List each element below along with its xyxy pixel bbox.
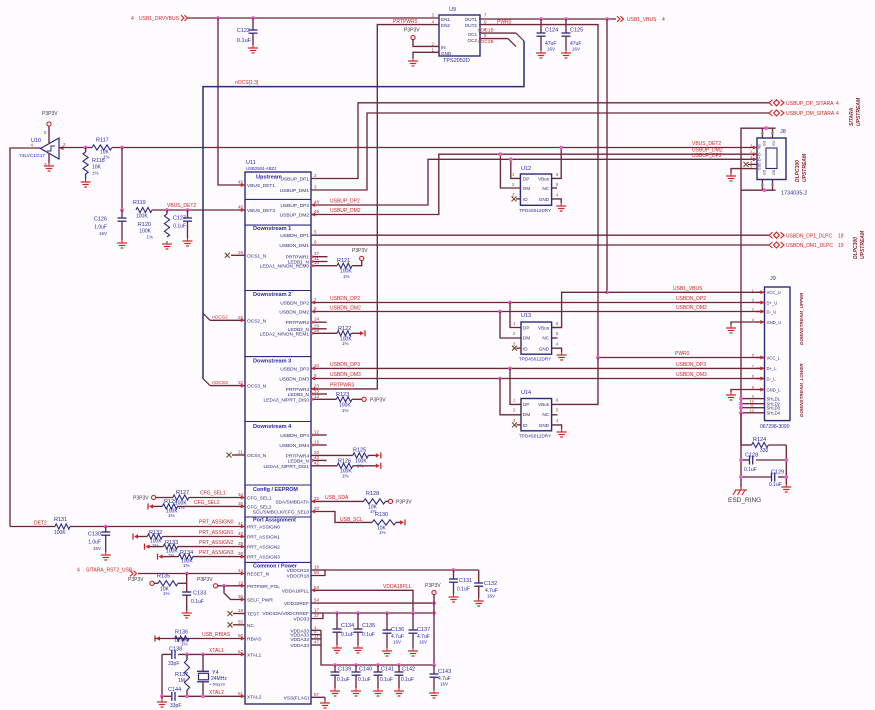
svg-text:1%: 1%	[163, 591, 170, 596]
power flag PRT_ASSIGN2	[144, 544, 146, 550]
wire PRT_ASSIGN2	[178, 546, 245, 548]
capacitor C129	[741, 476, 772, 478]
svg-text:0.1uF: 0.1uF	[401, 677, 414, 683]
svg-text:1%: 1%	[343, 274, 350, 279]
svg-text:VBUS_DET1: VBUS_DET1	[247, 183, 275, 189]
junction VDD33REF	[432, 601, 436, 605]
svg-text:USBDN_DP1_DLPC: USBDN_DP1_DLPC	[786, 233, 833, 239]
svg-text:VDDA18PLL: VDDA18PLL	[383, 584, 412, 590]
svg-text:PRTPWR2: PRTPWR2	[286, 320, 310, 326]
svg-text:EN2: EN2	[441, 23, 450, 28]
svg-text:P3P3V: P3P3V	[425, 583, 441, 589]
stub U14 NC	[552, 414, 558, 416]
svg-text:USB1_VBUS: USB1_VBUS	[627, 17, 657, 23]
capacitor C144	[171, 692, 173, 701]
capacitor C133	[186, 583, 188, 592]
bottom cap rail	[335, 664, 434, 666]
svg-text:13: 13	[314, 440, 320, 445]
svg-text:USBDN_DM2: USBDN_DM2	[330, 306, 361, 312]
junction U12 VBus	[559, 146, 563, 150]
svg-text:TPS2052D: TPS2052D	[443, 58, 470, 64]
wire USB_RBIAS	[155, 638, 245, 640]
svg-text:R132: R132	[149, 530, 162, 536]
junction VBUS_DET2 divider	[120, 146, 124, 150]
ground R120	[166, 241, 168, 244]
ground C125	[565, 50, 567, 53]
svg-text:57: 57	[314, 692, 320, 697]
svg-text:LEDA1_N/NON_REM0: LEDA1_N/NON_REM0	[260, 264, 310, 270]
svg-text:USB_SDA: USB_SDA	[325, 495, 349, 501]
svg-text:R135: R135	[157, 574, 170, 580]
svg-text:VCC_U: VCC_U	[767, 290, 781, 295]
svg-text:nOCS[1:3]: nOCS[1:3]	[235, 80, 259, 86]
svg-text:J8: J8	[780, 129, 786, 135]
power P3P3V port3	[362, 397, 366, 401]
junction USB1_VBUS vertical	[605, 17, 609, 21]
capacitor C142	[397, 663, 401, 667]
svg-text:VCC_L: VCC_L	[767, 355, 781, 360]
capacitor C135	[357, 613, 359, 629]
wire LEDA3_N to R123	[311, 398, 336, 400]
svg-text:XTAL2: XTAL2	[247, 694, 262, 700]
net USBDN_DM3 to J9	[311, 378, 765, 380]
off-page flag USBDN_DM1_DLPC	[769, 242, 773, 248]
svg-text:12: 12	[750, 408, 755, 413]
svg-text:1M: 1M	[178, 678, 185, 684]
net VDDCR18 wires	[311, 569, 325, 571]
capacitor C124	[540, 19, 542, 33]
connector J9	[765, 287, 791, 421]
svg-text:37: 37	[314, 613, 320, 618]
svg-text:50: 50	[314, 570, 320, 575]
capacitor C122	[252, 18, 254, 30]
svg-text:IN: IN	[441, 45, 446, 50]
junction PWR0 at VCC_L	[596, 356, 600, 360]
net USBUP_DP1 to off-page	[311, 103, 769, 179]
svg-text:VDDCR18: VDDCR18	[287, 574, 310, 580]
svg-text:R131: R131	[54, 517, 67, 523]
svg-text:1%: 1%	[342, 408, 349, 413]
svg-text:G3: G3	[763, 141, 767, 146]
wire U10 input from DET2	[10, 148, 41, 527]
resistor R124	[741, 444, 752, 446]
pin arrows U11 right	[311, 203, 315, 207]
svg-text:VSS(FLAG): VSS(FLAG)	[284, 695, 310, 701]
ESD ring rails	[740, 413, 742, 487]
ground J8	[730, 173, 732, 176]
svg-text:GND: GND	[539, 197, 550, 202]
capacitor C136	[386, 613, 388, 630]
capacitor C139	[333, 663, 337, 667]
ground U13	[561, 352, 563, 355]
power switch U9	[439, 15, 480, 56]
wire U13 DM	[500, 312, 521, 339]
svg-text:52: 52	[238, 649, 244, 654]
svg-text:C137: C137	[417, 627, 430, 633]
no-connect X OCS4	[232, 454, 245, 456]
net USBDN_DP2 to J9	[311, 302, 765, 304]
svg-text:R125: R125	[353, 448, 366, 454]
svg-text:54: 54	[314, 598, 320, 603]
junction R137 top	[185, 653, 189, 657]
junction at 253,18	[251, 16, 255, 20]
svg-text:VDD33: VDD33	[294, 617, 310, 623]
svg-text:ID: ID	[523, 423, 528, 428]
resistor R126	[337, 463, 353, 468]
svg-text:16V: 16V	[419, 640, 427, 645]
svg-text:C134: C134	[341, 623, 354, 629]
svg-text:XTAL1: XTAL1	[209, 648, 224, 654]
svg-text:USBUP_DM1: USBUP_DM1	[280, 188, 310, 194]
svg-text:C144: C144	[168, 687, 181, 693]
svg-text:USBDN_DP2: USBDN_DP2	[676, 296, 706, 302]
bus entry nOC2B	[508, 39, 516, 47]
stub LED1_N	[311, 261, 328, 263]
svg-text:USBDN_DM2: USBDN_DM2	[279, 310, 309, 316]
net USB_SDA wire	[311, 500, 364, 502]
wire U13 DP	[510, 303, 521, 328]
svg-text:NC: NC	[542, 336, 549, 341]
svg-text:26: 26	[238, 250, 244, 255]
resistor R130	[372, 520, 396, 525]
no-connect X U12 ID	[516, 198, 520, 200]
power flag RBIAS	[154, 636, 156, 642]
svg-text:16V: 16V	[487, 594, 495, 599]
svg-text:18: 18	[238, 608, 244, 613]
svg-text:C143: C143	[438, 669, 451, 675]
svg-text:PRT_ASSIGN3: PRT_ASSIGN3	[247, 555, 280, 561]
resistor R135	[158, 581, 178, 586]
stub U12 NC	[552, 187, 557, 189]
svg-text:DM: DM	[523, 336, 530, 341]
net USBDN_DP1 to off-page	[311, 234, 769, 236]
wire to R119 row	[121, 148, 123, 211]
svg-text:G1: G1	[758, 165, 762, 170]
capacitor C130	[105, 527, 107, 533]
svg-text:1%: 1%	[183, 563, 190, 568]
svg-text:C131: C131	[459, 578, 472, 584]
svg-text:35: 35	[238, 501, 244, 506]
svg-text:TPD4S012DRY: TPD4S012DRY	[519, 434, 551, 439]
svg-text:41: 41	[238, 521, 244, 526]
svg-text:PRT_ASSIGN0: PRT_ASSIGN0	[247, 525, 280, 531]
svg-text:+-50ppm: +-50ppm	[209, 682, 226, 687]
svg-text:25: 25	[238, 315, 244, 320]
capacitor C141	[376, 663, 380, 667]
svg-text:USBUP_DP2: USBUP_DP2	[692, 153, 722, 159]
svg-text:Downstream 1: Downstream 1	[253, 226, 291, 232]
svg-text:PRT_ASSIGN2: PRT_ASSIGN2	[199, 540, 234, 546]
svg-text:USBUP_DP_SITARA: USBUP_DP_SITARA	[786, 101, 834, 107]
ESD protection U12	[520, 174, 551, 205]
wire PRT_ASSIGN1	[162, 536, 245, 538]
svg-text:22: 22	[238, 380, 244, 385]
wire U9 GND to ground	[413, 52, 439, 58]
wire U12 VBus	[552, 148, 562, 179]
junction U14 DM	[498, 377, 502, 381]
svg-text:VDDA33: VDDA33	[290, 643, 309, 649]
capacitor C131	[453, 570, 455, 579]
svg-text:1%: 1%	[342, 474, 349, 479]
junction ESD left rail	[739, 458, 743, 462]
svg-text:C127: C127	[173, 216, 186, 222]
USB hub U11	[245, 172, 311, 704]
svg-text:36: 36	[238, 594, 244, 599]
chassis ground ESD	[740, 487, 742, 490]
wire U10 output	[59, 147, 92, 149]
svg-text:XTAL1: XTAL1	[247, 652, 262, 658]
ground C130	[105, 552, 107, 555]
capacitor C128	[741, 459, 750, 461]
svg-text:USB_RBIAS: USB_RBIAS	[202, 632, 231, 638]
wire VBUS_DET2 to U11 pin46	[152, 209, 245, 211]
svg-text:R134: R134	[180, 550, 193, 556]
svg-text:USBUP_DP2: USBUP_DP2	[330, 199, 360, 205]
svg-text:OCS1_N: OCS1_N	[247, 253, 267, 259]
off-page flag USBUP_DP_SITARA	[769, 100, 773, 106]
bus nOCS vertical right	[203, 41, 524, 379]
wire R135 to node	[178, 582, 187, 584]
svg-text:DOWNSTREAM_LOWER: DOWNSTREAM_LOWER	[799, 363, 804, 417]
wire R123 to P3P3V	[352, 398, 362, 400]
capacitor C126	[121, 210, 123, 218]
svg-text:NC: NC	[542, 186, 549, 191]
no-connect X U14 ID	[517, 424, 522, 426]
svg-text:C126: C126	[94, 217, 107, 223]
wire P3P3V to U9 IN	[413, 40, 439, 47]
svg-text:SITARA: SITARA	[849, 107, 855, 126]
svg-text:U12: U12	[521, 166, 531, 172]
resistor R122	[337, 331, 351, 336]
ground U9	[412, 58, 414, 61]
capacitor C125	[565, 19, 567, 33]
net nOC2B wire	[479, 38, 508, 40]
svg-text:UPSTREAM: UPSTREAM	[802, 153, 808, 182]
svg-text:OUT2: OUT2	[465, 23, 478, 28]
svg-text:EN1: EN1	[441, 17, 450, 22]
svg-text:USB1_DRVVBUS: USB1_DRVVBUS	[139, 16, 180, 22]
bus entry OCS3	[203, 379, 210, 386]
svg-text:GND: GND	[441, 51, 452, 56]
svg-text:OCS3_N: OCS3_N	[247, 384, 267, 390]
svg-text:VBUS_DET3: VBUS_DET3	[247, 208, 275, 214]
net VDDA33 pins join	[311, 629, 321, 631]
ground C134	[336, 645, 338, 648]
svg-text:PRTPWR3: PRTPWR3	[286, 387, 310, 393]
svg-text:0.1uF: 0.1uF	[362, 632, 375, 638]
wire U14 DM	[500, 379, 521, 415]
junction C135	[356, 611, 360, 615]
svg-text:nOCS2: nOCS2	[212, 315, 228, 321]
svg-text:USBUP_DM2: USBUP_DM2	[330, 208, 361, 214]
wire PWR0 to U14 VBus	[552, 358, 598, 405]
svg-text:4: 4	[77, 568, 80, 574]
capacitor C134	[336, 613, 338, 629]
svg-text:USBDN_DM3: USBDN_DM3	[330, 372, 361, 378]
junction Y4 top	[201, 653, 205, 657]
wire XTAL2 row	[162, 695, 171, 697]
svg-text:100K: 100K	[54, 530, 66, 536]
svg-text:OC2: OC2	[468, 38, 478, 43]
svg-text:USBDN_DP2: USBDN_DP2	[330, 296, 360, 302]
stub USBDN_DP4	[311, 434, 327, 436]
svg-text:R124: R124	[753, 437, 766, 443]
svg-text:D+_U: D+_U	[767, 300, 778, 305]
svg-text:C140: C140	[359, 667, 372, 673]
off-page flag USBDN_DP1_DLPC	[769, 232, 773, 238]
svg-text:USBDN_DP3: USBDN_DP3	[676, 362, 706, 368]
ground C133	[186, 610, 188, 613]
net USBUP_DM1 to off-page	[311, 113, 769, 190]
svg-text:C139: C139	[338, 667, 351, 673]
ground C127	[187, 238, 189, 241]
junction USB1_VBUS at VCC_U	[605, 290, 609, 294]
resistor R120	[166, 210, 168, 214]
resistor R118	[85, 148, 87, 153]
svg-text:G6: G6	[772, 170, 776, 175]
svg-text:USB_SCL: USB_SCL	[340, 517, 363, 523]
svg-text:40: 40	[238, 531, 244, 536]
svg-text:Downstream 3: Downstream 3	[253, 359, 291, 365]
svg-text:C129: C129	[771, 470, 784, 476]
bus entry nOC1B	[516, 33, 524, 41]
svg-text:330: 330	[760, 448, 769, 454]
J9 pins	[756, 291, 765, 293]
svg-text:R120: R120	[138, 222, 151, 228]
svg-text:51: 51	[238, 691, 244, 696]
svg-text:Upstream: Upstream	[256, 175, 282, 181]
svg-text:P3P3V: P3P3V	[404, 28, 420, 34]
svg-text:Downstream 4: Downstream 4	[253, 424, 292, 430]
svg-text:1%: 1%	[146, 235, 153, 240]
net USBDN_DM1 to off-page	[311, 244, 769, 246]
bus entry OCS2	[203, 313, 210, 320]
svg-text:R136: R136	[175, 630, 188, 636]
svg-text:NC: NC	[247, 623, 254, 629]
svg-text:DLPC300: DLPC300	[795, 160, 801, 182]
svg-text:USBDN_DP3: USBDN_DP3	[330, 362, 360, 368]
svg-text:21: 21	[238, 450, 244, 455]
ground C143	[433, 690, 435, 693]
resistor R133	[163, 544, 177, 549]
ground U10	[48, 154, 50, 163]
junction C130	[104, 525, 108, 529]
svg-text:UPSTREAM: UPSTREAM	[856, 97, 862, 126]
svg-text:RESET_N: RESET_N	[247, 572, 270, 578]
ground C132	[478, 598, 480, 601]
svg-text:LEDB4_N: LEDB4_N	[288, 458, 310, 464]
svg-text:CFG_SEL2: CFG_SEL2	[194, 500, 220, 506]
svg-text:USBDN_DP3: USBDN_DP3	[280, 366, 309, 372]
svg-text:R126: R126	[338, 459, 351, 465]
svg-text:0.1uF: 0.1uF	[341, 632, 354, 638]
resistor R125	[353, 453, 369, 458]
svg-text:0.1uF: 0.1uF	[744, 467, 757, 473]
svg-text:nOC1B: nOC1B	[478, 28, 494, 34]
no-connect X TEST	[233, 613, 245, 615]
svg-text:R122: R122	[338, 326, 351, 332]
svg-text:DOWNSTREAM_UPPER: DOWNSTREAM_UPPER	[799, 292, 804, 345]
buffer U10 74LVC1G17	[41, 138, 60, 159]
svg-text:1%: 1%	[342, 341, 349, 346]
stub LEDB2_N	[311, 328, 327, 330]
svg-text:VBus: VBus	[538, 402, 550, 407]
svg-text:DP: DP	[523, 402, 529, 407]
junction C131	[452, 568, 456, 572]
wire U14 GND	[552, 425, 562, 429]
svg-text:VBUS_DET2: VBUS_DET2	[692, 141, 721, 147]
J8 shield bottom loop	[761, 180, 763, 191]
J8 pin stubs	[748, 147, 757, 149]
svg-text:SHLD4: SHLD4	[767, 411, 781, 416]
resistor R131	[10, 526, 55, 528]
svg-text:USB2504-ABZJ: USB2504-ABZJ	[246, 166, 276, 171]
svg-text:C128: C128	[745, 453, 758, 459]
svg-text:G4: G4	[772, 141, 776, 146]
junction U12 DP	[509, 157, 513, 161]
svg-text:USBDN_DP1: USBDN_DP1	[280, 233, 309, 239]
svg-text:VDD33REF: VDD33REF	[284, 601, 309, 607]
svg-text:USBUP_DM2: USBUP_DM2	[280, 213, 310, 219]
svg-text:R127: R127	[176, 490, 189, 496]
wire VBUS_DET2 long row	[112, 147, 748, 149]
connector J8	[757, 138, 786, 180]
net nOC1B wire	[479, 32, 516, 34]
svg-text:PRT_ASSIGN1: PRT_ASSIGN1	[199, 530, 234, 536]
junction U14 DP	[508, 367, 512, 371]
svg-text:P3P3V: P3P3V	[197, 577, 213, 583]
svg-text:USBDN_DM4: USBDN_DM4	[279, 443, 309, 449]
svg-text:PWR0: PWR0	[675, 351, 690, 357]
power flag PRT_ASSIGN3	[157, 554, 159, 560]
ground C124	[540, 50, 542, 53]
svg-text:DM: DM	[523, 186, 530, 191]
svg-text:OCS2_N: OCS2_N	[247, 318, 267, 324]
svg-text:TEST: TEST	[247, 612, 259, 618]
svg-text:0.1uF: 0.1uF	[191, 599, 204, 605]
svg-text:nOC2B: nOC2B	[478, 39, 494, 45]
wire CFG_SEL1	[189, 497, 245, 499]
junction rail P3P3V	[432, 611, 436, 615]
crystal Y4	[202, 654, 204, 671]
svg-text:U9: U9	[449, 7, 456, 13]
ground C141	[377, 688, 379, 691]
wire PRT_ASSIGN3	[193, 556, 245, 558]
junction U13 DP	[508, 301, 512, 305]
junction C136	[385, 611, 389, 615]
svg-text:C132: C132	[484, 581, 497, 587]
wire R121 to P3P3V	[352, 261, 362, 266]
svg-text:U14: U14	[521, 390, 531, 396]
wire USB1_DRVVBUS to U9 EN1	[188, 17, 439, 19]
svg-text:PRTPWR3: PRTPWR3	[330, 383, 355, 389]
svg-text:GND: GND	[539, 423, 550, 428]
svg-text:CFG_SEL2: CFG_SEL2	[247, 504, 272, 510]
wire RESET_N	[138, 573, 245, 575]
resistor R121	[337, 263, 352, 268]
svg-text:DET2: DET2	[34, 521, 47, 527]
svg-text:VB: VB	[758, 144, 762, 150]
svg-text:Downstream 2: Downstream 2	[253, 292, 291, 298]
resistor R119	[136, 207, 152, 212]
svg-text:SCL/SMBCLK/CFG_SEL0: SCL/SMBCLK/CFG_SEL0	[253, 510, 310, 516]
stub LED3_N	[311, 393, 327, 395]
svg-text:16V: 16V	[99, 231, 107, 236]
svg-text:16V: 16V	[93, 546, 101, 551]
svg-text:0.1uF: 0.1uF	[358, 677, 371, 683]
svg-text:ID: ID	[523, 347, 528, 352]
svg-text:33pF: 33pF	[170, 703, 181, 709]
